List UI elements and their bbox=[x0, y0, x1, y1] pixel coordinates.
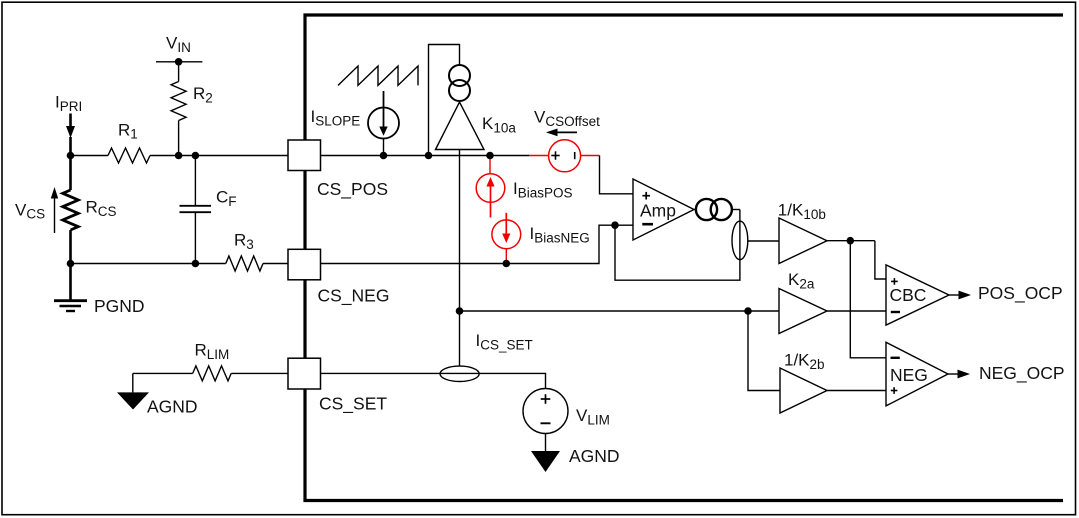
junction R1/RCS node bbox=[67, 152, 75, 160]
current source IBiasNEG bbox=[492, 213, 590, 264]
junction CF bottom bbox=[192, 260, 200, 268]
amplifier K10a bbox=[436, 102, 517, 150]
wire CS_POS net inside block bbox=[321, 155, 529, 157]
wire red VCSOffset to amp corner bbox=[581, 155, 600, 157]
svg-text:PGND: PGND bbox=[94, 296, 145, 316]
wire CS_POS node (left of pin) bbox=[71, 155, 289, 157]
wire red CS_POS to VCSOffset bbox=[529, 155, 549, 157]
resistor RLIM bbox=[133, 341, 288, 381]
wire to CBC plus input bbox=[875, 241, 886, 279]
sawtooth slope waveform bbox=[338, 66, 418, 85]
current mirror above K10a bbox=[449, 65, 470, 101]
junction IBiasNEG on CS_NEG bbox=[503, 260, 511, 268]
current sense oval at Amp output bbox=[732, 221, 748, 260]
junction ISLOPE on CS_POS bbox=[380, 152, 388, 160]
wire CS_NEG net inside block bbox=[321, 225, 633, 263]
voltage source VCSOffset bbox=[534, 108, 600, 172]
wire CS_SET pin to VLIM bbox=[321, 373, 546, 388]
buffer 1/K2b bbox=[780, 351, 827, 414]
junction 1/K10b output bbox=[847, 237, 855, 245]
junction Amp minus input bbox=[611, 221, 619, 229]
junction K10a loop on CS_POS bbox=[425, 152, 433, 160]
svg-text:CS_SET: CS_SET bbox=[319, 394, 387, 415]
current sense oval ICS_SET bbox=[440, 331, 533, 381]
junction RCS bottom bbox=[67, 260, 75, 268]
junction CF top bbox=[192, 152, 200, 160]
voltage source VLIM bbox=[523, 389, 610, 434]
current label IPRI with arrow bbox=[55, 93, 82, 191]
svg-text:CS_POS: CS_POS bbox=[317, 179, 388, 200]
pin CS_SET bbox=[288, 358, 387, 414]
svg-text:Amp: Amp bbox=[640, 201, 676, 221]
wire to Amp + input bbox=[600, 156, 634, 194]
resistor R3 bbox=[226, 230, 263, 271]
output NEG_OCP bbox=[948, 363, 1065, 384]
svg-text:AGND: AGND bbox=[147, 397, 198, 417]
ground AGND (RLIM) bbox=[117, 373, 198, 416]
svg-text:CS_NEG: CS_NEG bbox=[318, 286, 390, 307]
junction K2a/1K2b branch bbox=[744, 307, 752, 315]
junction K10a output to K2a wire bbox=[456, 307, 464, 315]
ground PGND bbox=[54, 264, 145, 317]
junction IBiasPOS on CS_POS bbox=[486, 152, 494, 160]
ground AGND (VLIM) bbox=[531, 434, 620, 473]
junction VIN rail bbox=[175, 58, 183, 66]
IC block outline U1 bbox=[305, 15, 1063, 501]
capacitor CF bbox=[180, 156, 237, 264]
wire 1/K2b output to NEG plus bbox=[827, 390, 886, 392]
wire CS_SET node to K2a input bbox=[460, 310, 780, 312]
comparator CBC bbox=[886, 265, 949, 325]
resistor R1 bbox=[108, 120, 150, 163]
svg-text:AGND: AGND bbox=[569, 446, 620, 466]
resistor RCS bbox=[63, 190, 117, 264]
wire K10a input loop bbox=[429, 45, 460, 156]
wire K2a output to CBC minus bbox=[827, 310, 886, 312]
current mirror at Amp output bbox=[694, 199, 740, 220]
junction R2 bottom bbox=[175, 152, 183, 160]
buffer 1/K10b bbox=[778, 201, 827, 264]
output POS_OCP bbox=[949, 283, 1063, 304]
wire to NEG minus input bbox=[850, 241, 886, 358]
voltage label VCS with arrow bbox=[15, 187, 58, 233]
current source IBiasPOS bbox=[476, 156, 572, 218]
current source ISLOPE bbox=[311, 91, 400, 156]
wire 1/K10b output bbox=[827, 240, 875, 242]
wire oval to 1/K10b bbox=[748, 240, 779, 242]
supply rail VIN bbox=[156, 34, 202, 62]
svg-text:NEG_OCP: NEG_OCP bbox=[979, 363, 1065, 384]
svg-text:NEG: NEG bbox=[890, 365, 928, 385]
resistor R2 bbox=[171, 62, 213, 156]
wire K10a output down to CS_SET node bbox=[459, 150, 461, 367]
wire Amp feedback bbox=[615, 210, 740, 281]
op-amp Amp bbox=[633, 179, 694, 240]
comparator NEG bbox=[886, 342, 948, 406]
pin CS_POS bbox=[288, 140, 388, 200]
wire branch to 1/K2b input bbox=[748, 311, 780, 391]
svg-text:CBC: CBC bbox=[890, 285, 927, 305]
buffer K2a bbox=[779, 270, 827, 333]
pin CS_NEG bbox=[288, 249, 389, 306]
svg-text:POS_OCP: POS_OCP bbox=[978, 283, 1063, 304]
wire CS_NEG node (left of pin) bbox=[71, 263, 289, 265]
